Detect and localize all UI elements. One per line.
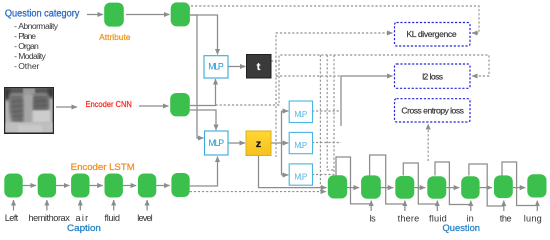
svg-text:Question category: Question category xyxy=(5,9,80,20)
svg-text:MLP: MLP xyxy=(294,173,307,182)
svg-text:Other: Other xyxy=(18,61,39,71)
svg-text:Question: Question xyxy=(443,223,481,233)
svg-text:-: - xyxy=(14,51,17,61)
svg-text:level: level xyxy=(137,213,152,223)
svg-text:-: - xyxy=(14,61,17,71)
svg-text:Caption: Caption xyxy=(67,223,101,233)
svg-text:Plane: Plane xyxy=(18,31,36,41)
svg-text:Left: Left xyxy=(5,213,19,223)
svg-text:MLP: MLP xyxy=(208,61,224,71)
svg-text:-: - xyxy=(14,31,17,41)
svg-text:Organ: Organ xyxy=(18,41,39,51)
svg-text:there: there xyxy=(398,213,420,223)
svg-text:Is: Is xyxy=(369,213,376,223)
svg-text:MLP: MLP xyxy=(209,138,225,148)
svg-text:Cross entropy loss: Cross entropy loss xyxy=(401,106,464,116)
svg-text:Encoder LSTM: Encoder LSTM xyxy=(71,162,135,172)
svg-text:the: the xyxy=(500,213,512,223)
svg-text:l2 loss: l2 loss xyxy=(422,71,443,81)
svg-text:MLP: MLP xyxy=(294,110,307,119)
svg-text:-: - xyxy=(14,41,17,51)
svg-text:fluid: fluid xyxy=(429,213,447,223)
svg-text:KL divergence: KL divergence xyxy=(406,29,456,39)
svg-text:t: t xyxy=(257,61,261,73)
svg-text:-: - xyxy=(14,21,17,31)
svg-text:Modality: Modality xyxy=(18,51,46,61)
svg-text:air: air xyxy=(76,213,89,223)
svg-text:fluid: fluid xyxy=(105,213,121,223)
svg-text:Encoder CNN: Encoder CNN xyxy=(86,100,132,109)
svg-text:Attribute: Attribute xyxy=(99,33,131,42)
svg-text:Abnormality: Abnormality xyxy=(18,21,59,31)
svg-text:lung: lung xyxy=(524,213,542,223)
svg-text:hemithorax: hemithorax xyxy=(28,213,70,223)
svg-text:MLP: MLP xyxy=(294,141,307,150)
svg-text:in: in xyxy=(467,213,474,223)
svg-text:z: z xyxy=(256,138,261,150)
